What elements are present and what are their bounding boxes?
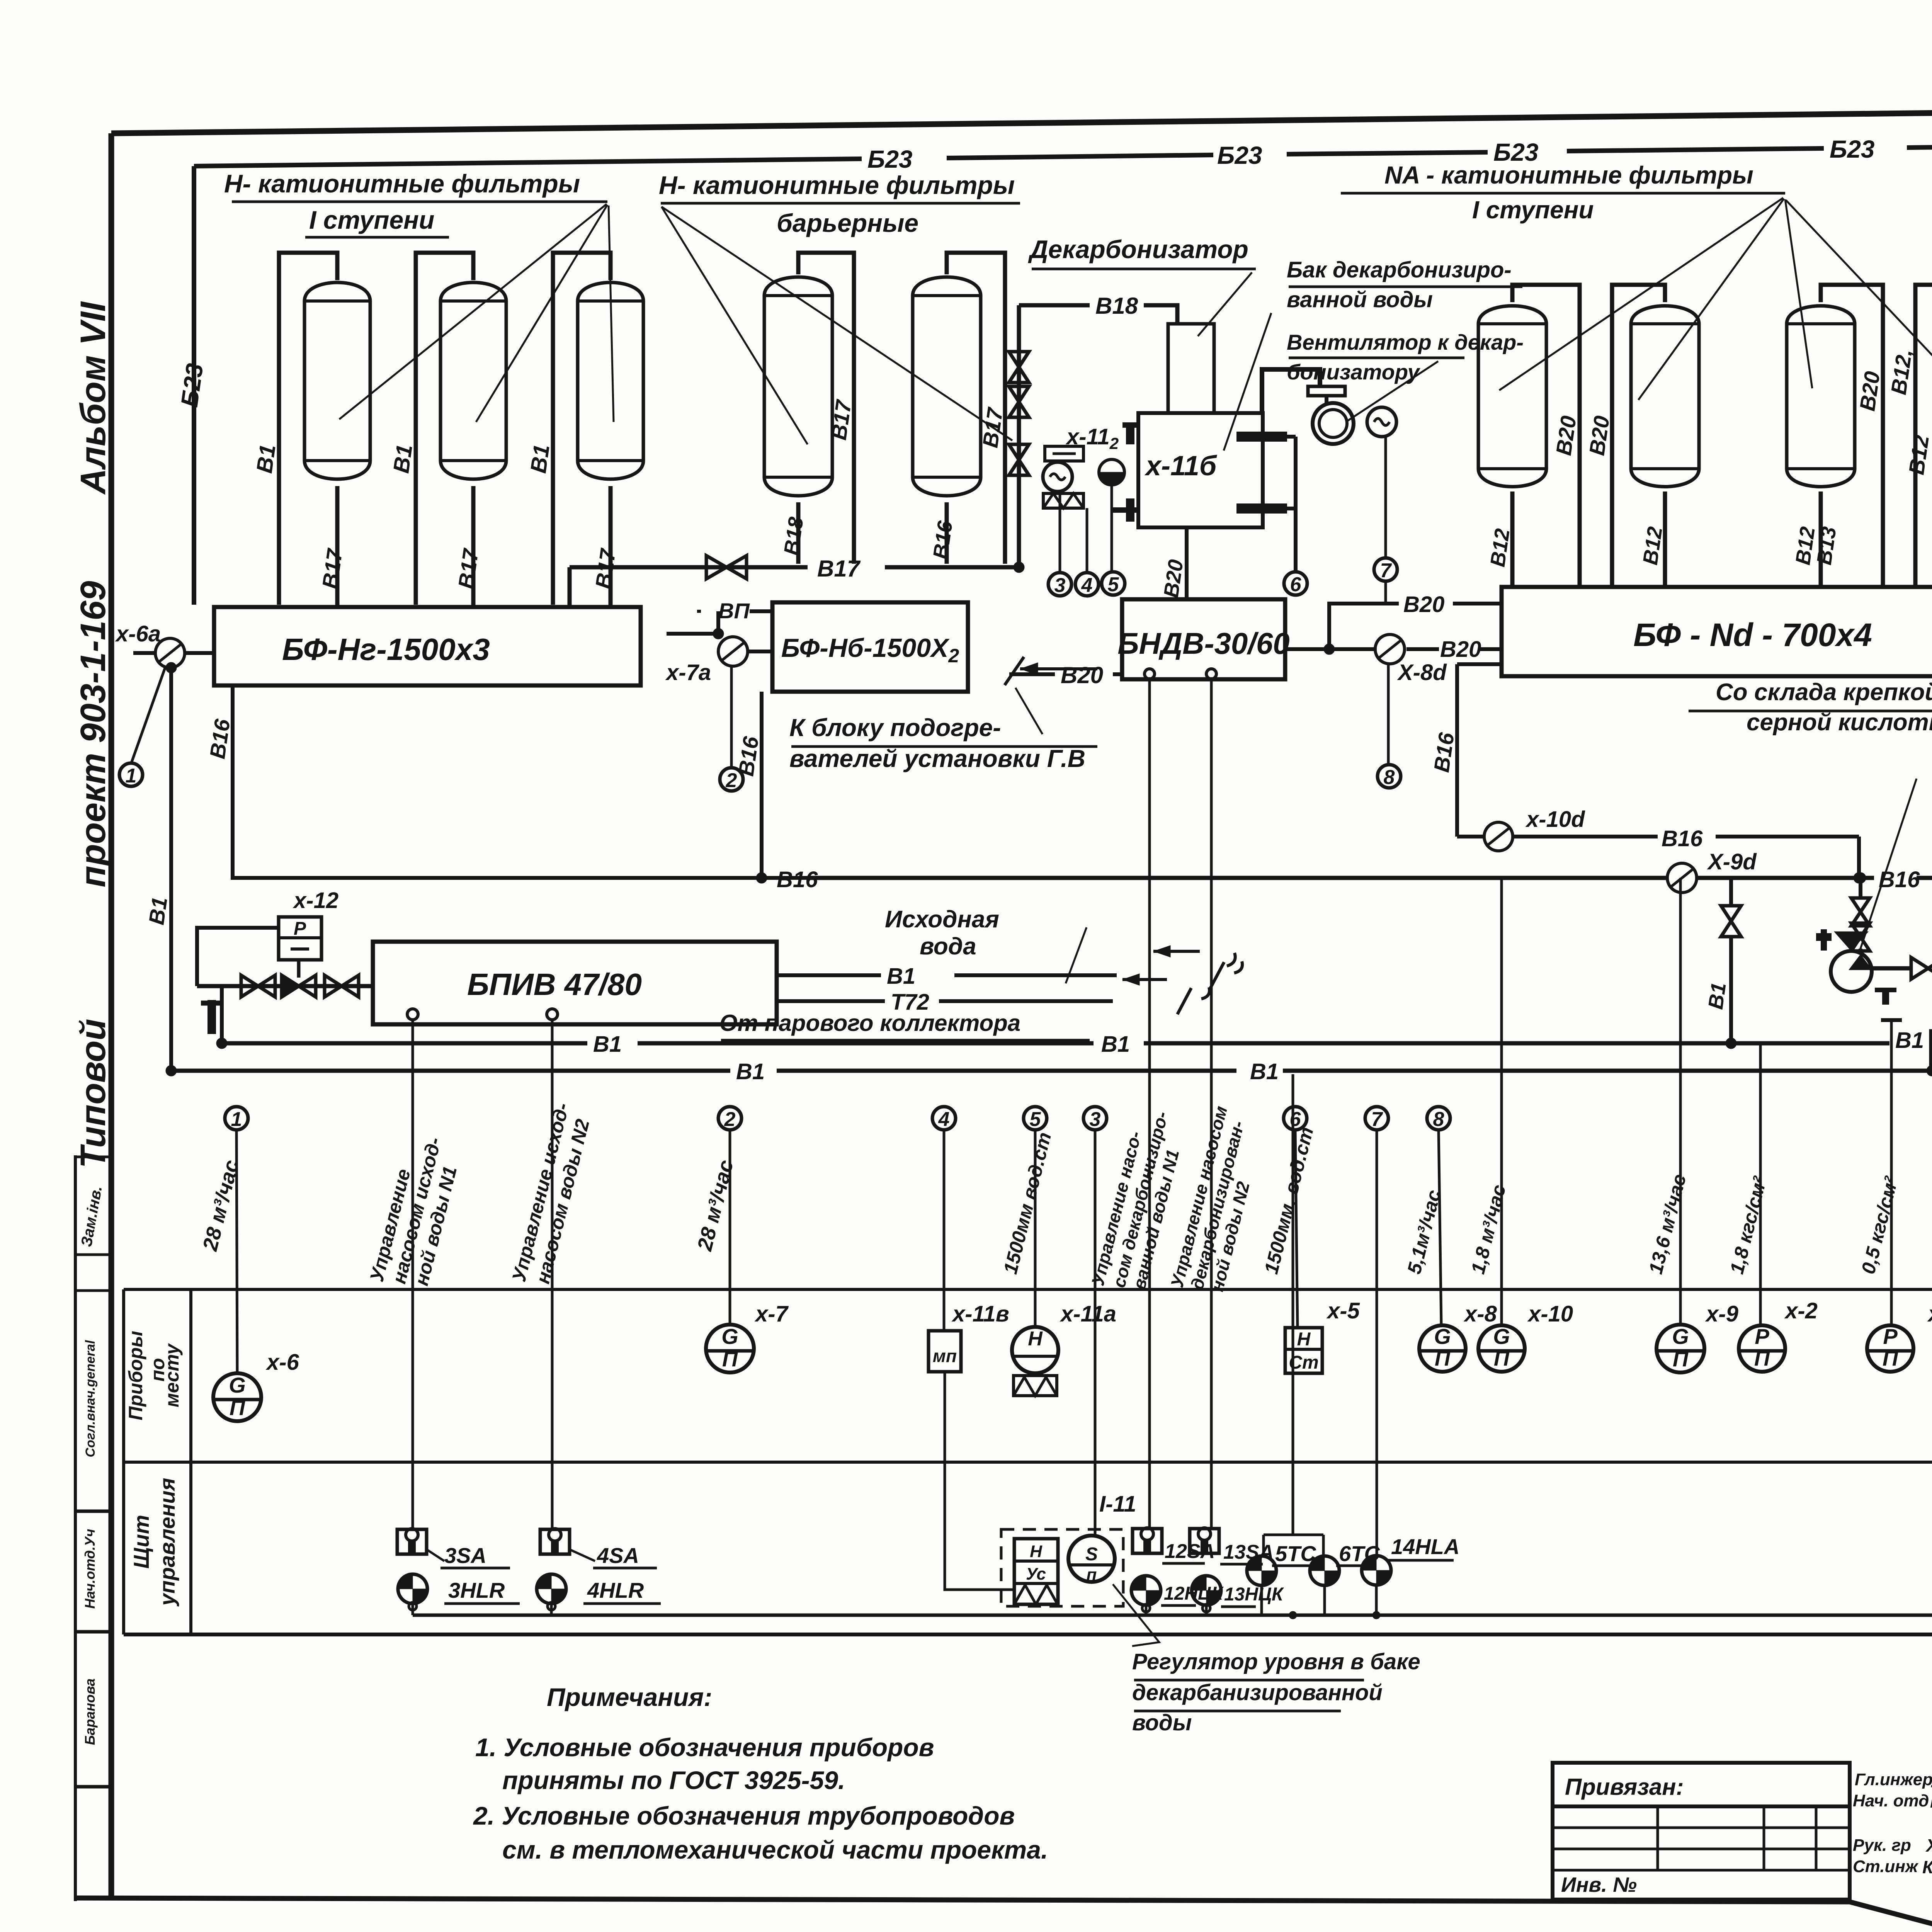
svg-text:В1: В1	[887, 964, 915, 989]
svg-text:Типовой: Типовой	[73, 1019, 113, 1168]
label 1500мм b	[1260, 1125, 1318, 1276]
instrument х-8 (G/П)	[1419, 1324, 1466, 1372]
margin text: Альбом VII	[73, 301, 113, 495]
svg-text:Привязан:: Привязан:	[1565, 1774, 1684, 1800]
funnel х-7а	[718, 637, 748, 666]
label Управление насосом декарбонизированной воды N1	[1087, 1109, 1183, 1291]
svg-text:х-11а: х-11а	[1060, 1301, 1116, 1327]
label 1500мм a	[999, 1130, 1055, 1276]
leaders to barrier filters	[662, 207, 1012, 444]
pipe В1 lower	[166, 1065, 1932, 1076]
block БПИВ 47/80	[373, 942, 777, 1024]
label Бак декарбонизированной воды	[1287, 257, 1522, 312]
label От парового коллектора	[719, 1010, 1090, 1040]
svg-text:13SA: 13SA	[1223, 1541, 1274, 1563]
svg-text:5ТС: 5ТС	[1275, 1541, 1316, 1566]
label 5,1м3/час	[1403, 1188, 1445, 1276]
title block: lower grid	[1553, 1806, 1850, 1900]
svg-text:приняты по ГОСТ 3925-59.: приняты по ГОСТ 3925-59.	[502, 1766, 845, 1794]
svg-text:п: п	[1087, 1565, 1097, 1584]
black tee left	[201, 1000, 223, 1034]
svg-text:Н: Н	[1030, 1542, 1043, 1561]
tie point row 7	[1365, 1107, 1388, 1556]
label В1 left	[144, 895, 172, 926]
svg-text:G: G	[1493, 1324, 1510, 1349]
svg-text:I ступени: I ступени	[1472, 196, 1594, 224]
title block: привязан box	[1553, 1763, 1850, 1806]
label В20 riser2	[1584, 414, 1614, 457]
svg-text:Нач. отд: Нач. отд	[1853, 1791, 1929, 1810]
tie point row 1	[225, 1107, 248, 1374]
funnel х-10d	[1484, 822, 1513, 851]
label х-10	[1527, 1301, 1573, 1327]
label Н-катионитные фильтры I ступени	[224, 169, 607, 237]
svg-text:х-5: х-5	[1326, 1298, 1360, 1323]
label х-11в	[951, 1301, 1009, 1327]
tank 2 inlet riser В1	[416, 253, 473, 605]
regulator x-11 dashed box	[1001, 1529, 1123, 1606]
instrument rect x-11_2	[1045, 446, 1083, 461]
wire 3SA	[412, 1020, 414, 1529]
label В1 riser 3	[526, 443, 554, 474]
label В20 lower	[1440, 637, 1481, 662]
svg-text:Гл.инжер: Гл.инжер	[1855, 1770, 1932, 1789]
instrument х-11а (Н)	[1012, 1327, 1058, 1396]
instrument circle ~	[1043, 462, 1072, 492]
pump discharge valve	[1872, 957, 1932, 979]
lamp 6TC	[1310, 1541, 1380, 1585]
svg-text:3SA: 3SA	[444, 1543, 486, 1568]
label В1 u3	[1895, 1028, 1924, 1053]
valve БПИВ 1	[241, 975, 275, 997]
label В12 riser4b	[1904, 434, 1932, 476]
svg-text:Ст: Ст	[1289, 1352, 1318, 1373]
tie point 2	[720, 768, 743, 792]
label В16 branch vert	[1429, 731, 1459, 774]
svg-text:декарбанизированной: декарбанизированной	[1132, 1680, 1383, 1705]
lamp 3HLR	[398, 1574, 520, 1604]
block БФ-Нг-1500х3	[214, 607, 641, 685]
fan motor ~	[1367, 407, 1396, 437]
wire x-1 line	[1881, 1020, 1902, 1325]
svg-text:G: G	[721, 1324, 738, 1349]
label В1 x9d	[1704, 981, 1731, 1011]
label х-6а	[115, 621, 161, 646]
svg-text:х-10d: х-10d	[1525, 807, 1585, 832]
leader heaters	[1015, 688, 1043, 734]
sheet outer edge (left)	[74, 1155, 77, 1901]
label Примечания	[547, 1683, 712, 1711]
lamp 5TC	[1247, 1541, 1316, 1585]
svg-text:Ст.инж: Ст.инж	[1853, 1857, 1919, 1876]
svg-text:В1: В1	[1101, 1032, 1130, 1057]
label В20 upper	[1403, 592, 1444, 617]
svg-text:см. в тепломеханической час: см. в тепломеханической части проекта.	[502, 1835, 1048, 1864]
label В16 stub	[929, 519, 957, 560]
margin scribble	[78, 1185, 105, 1248]
barrier filter tank 1	[764, 277, 832, 496]
svg-text:В16: В16	[777, 867, 818, 892]
lamp 12HLR	[1131, 1576, 1224, 1605]
svg-text:4HLR: 4HLR	[587, 1578, 644, 1602]
label В17 stub 2	[453, 546, 483, 590]
margin cell text 2	[82, 1529, 98, 1609]
wire fan to point 7	[1384, 437, 1387, 559]
tie point row 2	[718, 1107, 742, 1325]
label Управление насосом исходной воды N1	[366, 1135, 461, 1288]
NA tank 4 riser	[1915, 285, 1932, 587]
wire from ~ instrument	[1059, 492, 1061, 573]
wire x-8d to point 8	[1387, 664, 1390, 765]
tie point row 4	[932, 1107, 956, 1331]
instrument х-2 (Р/П)	[1739, 1324, 1785, 1372]
svg-text:П: П	[722, 1347, 738, 1371]
label х-11а	[1060, 1301, 1116, 1327]
svg-text:2: 2	[724, 1108, 736, 1131]
tie point 7	[1374, 558, 1397, 582]
funnel х-8d	[1375, 634, 1405, 664]
svg-text:х-11в: х-11в	[951, 1301, 1009, 1327]
label 28м3/час b	[693, 1158, 738, 1253]
svg-text:х-10: х-10	[1527, 1301, 1573, 1327]
tie point 1	[119, 763, 143, 787]
NA filter tank 1	[1478, 306, 1546, 487]
x-11b left nozzle tees	[1113, 425, 1138, 522]
svg-text:В16: В16	[1662, 826, 1703, 851]
svg-text:Примечания:: Примечания:	[547, 1683, 712, 1711]
label Б23 #4	[1830, 135, 1875, 163]
label В12 stub2	[1639, 525, 1667, 566]
svg-text:БФ-Нг-1500х3: БФ-Нг-1500х3	[282, 632, 490, 667]
svg-text:ВП: ВП	[718, 599, 750, 623]
svg-text:Щит: Щит	[129, 1515, 153, 1568]
pipe В18 drop	[1017, 305, 1021, 567]
barrier tank 2 outlet	[945, 502, 949, 564]
svg-text:Кашицын: Кашицын	[1930, 1791, 1932, 1811]
leader регулятор уровня	[1113, 1584, 1159, 1646]
label х-5	[1326, 1298, 1360, 1323]
instrument х-9 (G/П)	[1656, 1324, 1704, 1372]
pipe В16 upper branch	[1457, 664, 1864, 883]
break Т72	[1122, 974, 1209, 1014]
label В1 исходная	[887, 964, 915, 989]
valve on В17	[706, 556, 747, 579]
leaders to NA filters	[1499, 198, 1932, 400]
svg-text:Баранова: Баранова	[82, 1679, 98, 1745]
svg-text:х-6а: х-6а	[115, 621, 161, 646]
svg-text:Рук. гр: Рук. гр	[1853, 1836, 1911, 1855]
svg-text:Харитонова: Харитонова	[1925, 1835, 1932, 1855]
barrier tank 1 riser В17	[798, 253, 854, 564]
label Б23 #2	[1217, 141, 1262, 169]
wire from level instrument	[1111, 485, 1113, 571]
leader lines to H-filters	[339, 204, 614, 422]
label Б23 #1	[867, 145, 913, 173]
svg-text:х-2: х-2	[1784, 1298, 1818, 1323]
valve В18 #3	[1009, 444, 1029, 475]
svg-text:NA - катионитные фильтры: NA - катионитные фильтры	[1384, 161, 1753, 189]
svg-text:месту: месту	[161, 1343, 183, 1407]
svg-text:В1: В1	[252, 443, 281, 474]
tie point row 6	[1284, 1107, 1307, 1328]
svg-text:4SA: 4SA	[597, 1543, 639, 1568]
svg-text:3: 3	[1054, 574, 1066, 597]
svg-text:В1: В1	[526, 443, 554, 474]
label Б23 vertical	[176, 362, 209, 408]
svg-text:мп: мп	[933, 1346, 957, 1366]
label х-7	[754, 1301, 789, 1327]
label Управление насосом декарбонизированной воды N2	[1167, 1104, 1253, 1293]
pipe Б23 header	[194, 144, 1932, 166]
pipe Т72	[777, 999, 1113, 1003]
svg-text:6: 6	[1290, 573, 1302, 596]
svg-text:х-12: х-12	[293, 888, 338, 913]
label NA-катионитные фильтры I ступени	[1341, 161, 1785, 224]
svg-text:П: П	[1754, 1346, 1770, 1370]
pipe to БПИВ valves	[197, 984, 373, 988]
svg-text:х-7а: х-7а	[665, 660, 711, 685]
svg-text:В1: В1	[1895, 1028, 1924, 1053]
label В20 riser1	[1551, 414, 1581, 457]
svg-text:Б23: Б23	[1217, 141, 1262, 169]
svg-text:бонизатору: бонизатору	[1287, 360, 1421, 384]
svg-text:П: П	[1494, 1346, 1510, 1370]
svg-text:П: П	[1673, 1347, 1689, 1371]
label Вентилятор к декарбонизатору	[1287, 330, 1524, 384]
label 1,8 м3/час	[1467, 1182, 1510, 1276]
wire x-10 line	[1500, 878, 1503, 1325]
instrument х-12	[279, 917, 321, 960]
label 0,5 кгс/см2	[1857, 1174, 1902, 1276]
svg-text:В20: В20	[1061, 662, 1103, 688]
pipe В17 line	[570, 562, 1024, 607]
svg-text:х-9: х-9	[1705, 1301, 1738, 1327]
svg-text:Бак декарбонизиро-: Бак декарбонизиро-	[1287, 257, 1512, 282]
tie point 3	[1048, 573, 1071, 597]
svg-text:К блоку подогре-: К блоку подогре-	[789, 714, 1001, 742]
instrument х-10 (G/П)	[1478, 1324, 1525, 1372]
svg-text:G: G	[1672, 1324, 1689, 1349]
svg-text:вода: вода	[920, 933, 976, 960]
svg-text:В16: В16	[1879, 867, 1920, 892]
wire x-11b to 6	[1287, 437, 1296, 572]
svg-text:Р: Р	[294, 918, 306, 939]
svg-text:Вентилятор к декар-: Вентилятор к декар-	[1287, 330, 1524, 354]
instrument х-11в (МП)	[929, 1331, 961, 1372]
svg-text:Декарбонизатор: Декарбонизатор	[1028, 235, 1248, 264]
wire 7 to В20	[1384, 580, 1387, 604]
svg-text:х-11б: х-11б	[1144, 451, 1218, 481]
svg-text:В18: В18	[1095, 293, 1138, 319]
svg-text:13НЦК: 13НЦК	[1224, 1584, 1284, 1605]
label Щит управления	[129, 1478, 179, 1607]
label ВП	[697, 599, 772, 623]
funnel х-6а	[155, 638, 185, 668]
barrier tank 1 outlet	[796, 502, 801, 564]
tank 2 outlet stub В17	[471, 486, 476, 607]
tank 1 outlet stub В17	[335, 486, 340, 607]
svg-text:Р: Р	[1883, 1324, 1898, 1349]
instrument х-1 (Р/П)	[1867, 1324, 1913, 1372]
x-11 H/Ус box	[1014, 1539, 1058, 1604]
label 28м3/час a	[198, 1158, 243, 1253]
label Исходная вода	[885, 906, 999, 960]
label х-2	[1784, 1298, 1818, 1323]
svg-text:4: 4	[938, 1108, 950, 1131]
hatched box	[1043, 493, 1083, 508]
svg-text:х-8: х-8	[1463, 1301, 1497, 1327]
svg-text:14HLA: 14HLA	[1391, 1534, 1459, 1559]
label х-8	[1463, 1301, 1497, 1327]
NA tank 3 riser	[1821, 285, 1883, 587]
wire 4	[1086, 508, 1088, 573]
note 1b	[502, 1766, 845, 1794]
wire from БНДВ 1	[1148, 679, 1151, 1529]
valve БПИВ 2 (reg)	[282, 960, 316, 997]
instrument х-5 (Н/Ст)	[1285, 1328, 1322, 1373]
pipe drop to В1	[216, 986, 227, 1049]
pipe В20 upper	[1324, 604, 1502, 655]
pipe at х-6а	[133, 653, 214, 673]
pipe х-7а	[667, 611, 772, 651]
svg-text:Н- катионитные фильтры: Н- катионитные фильтры	[659, 171, 1015, 199]
label В1 l2	[1250, 1059, 1279, 1084]
NA tank 2 outlet stub	[1663, 492, 1667, 587]
svg-text:От парового коллектора: От парового коллектора	[719, 1010, 1020, 1036]
break В1	[1153, 946, 1242, 988]
svg-text:В1: В1	[388, 443, 417, 474]
wire x-7a to point 2	[730, 666, 733, 769]
svg-text:S: S	[1085, 1544, 1098, 1565]
label Н-катионитные фильтры барьерные	[659, 171, 1020, 237]
svg-text:2. Условные обозначения: 2. Условные обозначения трубопроводов	[473, 1801, 1015, 1830]
svg-text:7: 7	[1371, 1108, 1383, 1131]
label В1 u2	[1101, 1032, 1130, 1057]
svg-text:Н: Н	[1028, 1328, 1043, 1350]
tie point row 3	[1083, 1107, 1107, 1535]
label Регулятор уровня в баке	[1132, 1649, 1420, 1735]
block БФ-Nd-700х4	[1502, 587, 1932, 676]
valve В18 #2	[1009, 386, 1029, 417]
barrier filter tank 2	[913, 277, 981, 496]
label В1 riser 1	[252, 443, 281, 474]
label В17 riser 1	[826, 398, 856, 441]
title block: names column	[1850, 1763, 1932, 1901]
tie point row 8	[1427, 1107, 1450, 1325]
instrument х-7 (G/П)	[706, 1324, 754, 1372]
svg-text:G: G	[1434, 1324, 1451, 1349]
label В16 line left	[777, 867, 818, 892]
svg-text:8: 8	[1433, 1108, 1444, 1131]
label В13 stub3b	[1813, 525, 1841, 566]
svg-text:х-6: х-6	[265, 1350, 299, 1375]
x-11b right nozzles	[1236, 437, 1287, 509]
svg-text:В20: В20	[1403, 592, 1444, 617]
decarbonizer tower	[1168, 324, 1214, 413]
label х-1	[1927, 1301, 1932, 1327]
leader pump	[1859, 779, 1917, 954]
pipe Б23 left drop	[192, 166, 196, 605]
label В17 stub 3	[590, 546, 620, 590]
leader to fan	[1347, 361, 1438, 421]
label В16 (БФ-Нб)	[733, 735, 763, 777]
label Т72	[891, 990, 929, 1015]
label В20 riser3	[1855, 370, 1884, 413]
label х-7а	[665, 660, 711, 685]
label В16 line right	[1879, 867, 1920, 892]
signal bus	[409, 1584, 1932, 1619]
svg-text:Приборы: Приборы	[125, 1331, 146, 1420]
svg-text:В20: В20	[1440, 637, 1481, 662]
svg-text:1. Условные обозначения при: 1. Условные обозначения приборов	[475, 1733, 934, 1762]
svg-text:Ус: Ус	[1026, 1565, 1046, 1583]
svg-text:G: G	[229, 1373, 246, 1397]
svg-text:5: 5	[1030, 1108, 1041, 1131]
wire x-9 line	[1679, 878, 1682, 1325]
svg-text:5: 5	[1108, 573, 1119, 596]
label В17 riser 2	[978, 405, 1007, 449]
БНДВ drain circles	[1145, 669, 1216, 679]
svg-text:1: 1	[126, 765, 137, 787]
svg-text:Н: Н	[1297, 1329, 1311, 1350]
note 1	[475, 1733, 934, 1762]
tank 3 inlet riser В1	[553, 253, 611, 605]
svg-text:БПИВ 47/80: БПИВ 47/80	[467, 967, 642, 1002]
leader to tank x-11b	[1224, 313, 1271, 451]
x-11b vent duct	[1262, 369, 1320, 413]
label х-9d	[1707, 849, 1757, 874]
block БНДВ-30/60	[1117, 599, 1289, 679]
funnel х-9d	[756, 863, 1697, 893]
pipe В20 lower	[1285, 647, 1502, 651]
svg-text:I ступени: I ступени	[309, 206, 434, 234]
valve x-9d branch	[1721, 878, 1741, 1049]
label х-12	[293, 888, 338, 913]
wire x-2 line	[1759, 1043, 1762, 1325]
label 13,6 м3/час	[1645, 1172, 1690, 1276]
switch 12SA	[1133, 1528, 1215, 1563]
tank 3 outlet stub В17	[609, 486, 613, 607]
label В17 on line	[817, 556, 861, 582]
barrier tank 2 riser В17	[947, 253, 1005, 564]
label В20 stub	[1160, 558, 1188, 599]
margin text: проект 903-1-169	[73, 581, 113, 887]
svg-text:Карамышева: Карамышева	[1922, 1857, 1932, 1877]
label Б23 #3	[1493, 138, 1539, 166]
NA tank 2 riser	[1612, 285, 1665, 587]
label х-6	[265, 1350, 299, 1375]
tie point 4	[1075, 573, 1099, 597]
label В17 stub 1	[317, 546, 347, 590]
svg-text:Б23: Б23	[1830, 135, 1875, 163]
switch 4SA	[540, 1529, 657, 1568]
svg-text:серной кислоты: серной кислоты	[1747, 709, 1932, 736]
svg-text:В1: В1	[1704, 981, 1731, 1011]
tie point 6	[1284, 572, 1307, 596]
label В12 stub1	[1486, 527, 1514, 568]
stub x-11b to БНДВ В20	[1185, 527, 1189, 599]
pump (насос промывочной воды)	[1831, 932, 1872, 992]
wire МП to x-11	[945, 1372, 1014, 1590]
label В18	[1095, 293, 1138, 319]
svg-text:1: 1	[231, 1108, 242, 1131]
tie point 5	[1102, 572, 1125, 596]
svg-text:П: П	[1883, 1346, 1899, 1370]
tank 1 inlet riser В1	[279, 253, 337, 605]
lamp 13HLR	[1192, 1576, 1284, 1607]
svg-text:Альбом VII: Альбом VII	[73, 301, 113, 495]
svg-text:вателей установки Г.В: вателей установки Г.В	[789, 745, 1085, 772]
